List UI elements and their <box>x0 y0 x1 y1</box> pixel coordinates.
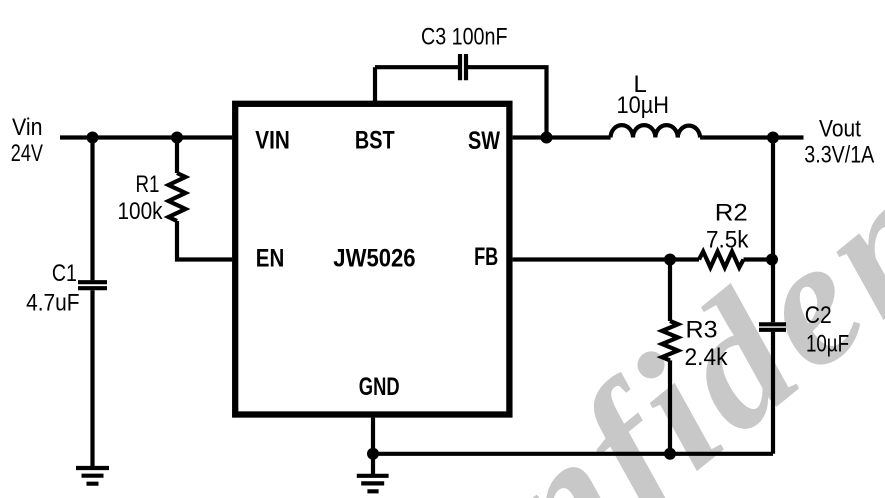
IC U1 JW5026 body <box>235 104 509 415</box>
wire R3 bottom <box>668 360 672 453</box>
wire R3 top <box>668 260 672 322</box>
node R1 junction <box>171 132 183 144</box>
ground (C1) <box>76 468 109 484</box>
wire Vout down to C2 <box>771 138 775 323</box>
svg-text:2.4k: 2.4k <box>685 344 729 371</box>
svg-text:R2: R2 <box>715 200 748 227</box>
svg-text:SW: SW <box>468 127 500 155</box>
node SW junction <box>541 132 553 144</box>
node Vin junction <box>87 132 99 144</box>
svg-text:VIN: VIN <box>255 127 289 155</box>
wire C1 branch down <box>90 138 94 281</box>
svg-text:C2: C2 <box>805 302 832 329</box>
node GND junction <box>367 448 379 460</box>
wire C1 to ground <box>90 290 94 468</box>
svg-text:24V: 24V <box>11 140 43 167</box>
wire R1 top <box>175 138 179 174</box>
svg-text:3.3V/1A: 3.3V/1A <box>804 142 874 169</box>
svg-text:10µF: 10µF <box>806 331 849 358</box>
wire bottom rail <box>373 452 773 456</box>
svg-text:7.5k: 7.5k <box>706 226 749 253</box>
svg-text:EN: EN <box>256 245 284 273</box>
svg-text:Vout: Vout <box>819 116 861 143</box>
inductor L <box>611 125 701 137</box>
svg-text:C1: C1 <box>52 260 77 287</box>
node R3 bottom junction <box>664 448 676 460</box>
capacitor C3 <box>460 54 466 80</box>
svg-text:C3 100nF: C3 100nF <box>421 24 508 51</box>
svg-text:GND: GND <box>359 373 400 401</box>
node R2-C2 junction <box>766 254 778 266</box>
wire R1 bottom to EN <box>177 221 232 260</box>
svg-text:100k: 100k <box>118 198 164 225</box>
svg-text:FB: FB <box>474 243 498 271</box>
resistor R3 <box>662 321 678 360</box>
wire FB rail <box>513 257 699 261</box>
wire GND stub <box>371 418 375 454</box>
wire Vin rail <box>60 135 232 139</box>
node FB junction <box>664 254 676 266</box>
svg-text:JW5026: JW5026 <box>333 245 415 273</box>
node Vout junction <box>767 132 779 144</box>
svg-text:R1: R1 <box>136 171 160 198</box>
svg-text:BST: BST <box>355 127 395 155</box>
resistor R2 <box>699 252 744 268</box>
wire C3 to SW node <box>468 67 547 137</box>
svg-text:10µH: 10µH <box>617 92 670 119</box>
svg-text:4.7uF: 4.7uF <box>26 290 80 317</box>
svg-text:R3: R3 <box>686 317 718 344</box>
wire SW rail <box>513 135 611 139</box>
wire C2 to bottom rail <box>771 332 775 454</box>
capacitor C2 <box>759 324 786 330</box>
wire L to Vout <box>700 135 803 139</box>
capacitor C1 <box>78 282 107 288</box>
wire BST to C3 <box>375 65 458 69</box>
ground (GND) <box>357 476 389 492</box>
wire R2 to Vout line <box>744 257 774 261</box>
wire GND to ground <box>371 454 375 476</box>
resistor R1 <box>169 173 186 221</box>
svg-text:Vin: Vin <box>12 114 43 141</box>
wire BST stub <box>373 67 377 101</box>
